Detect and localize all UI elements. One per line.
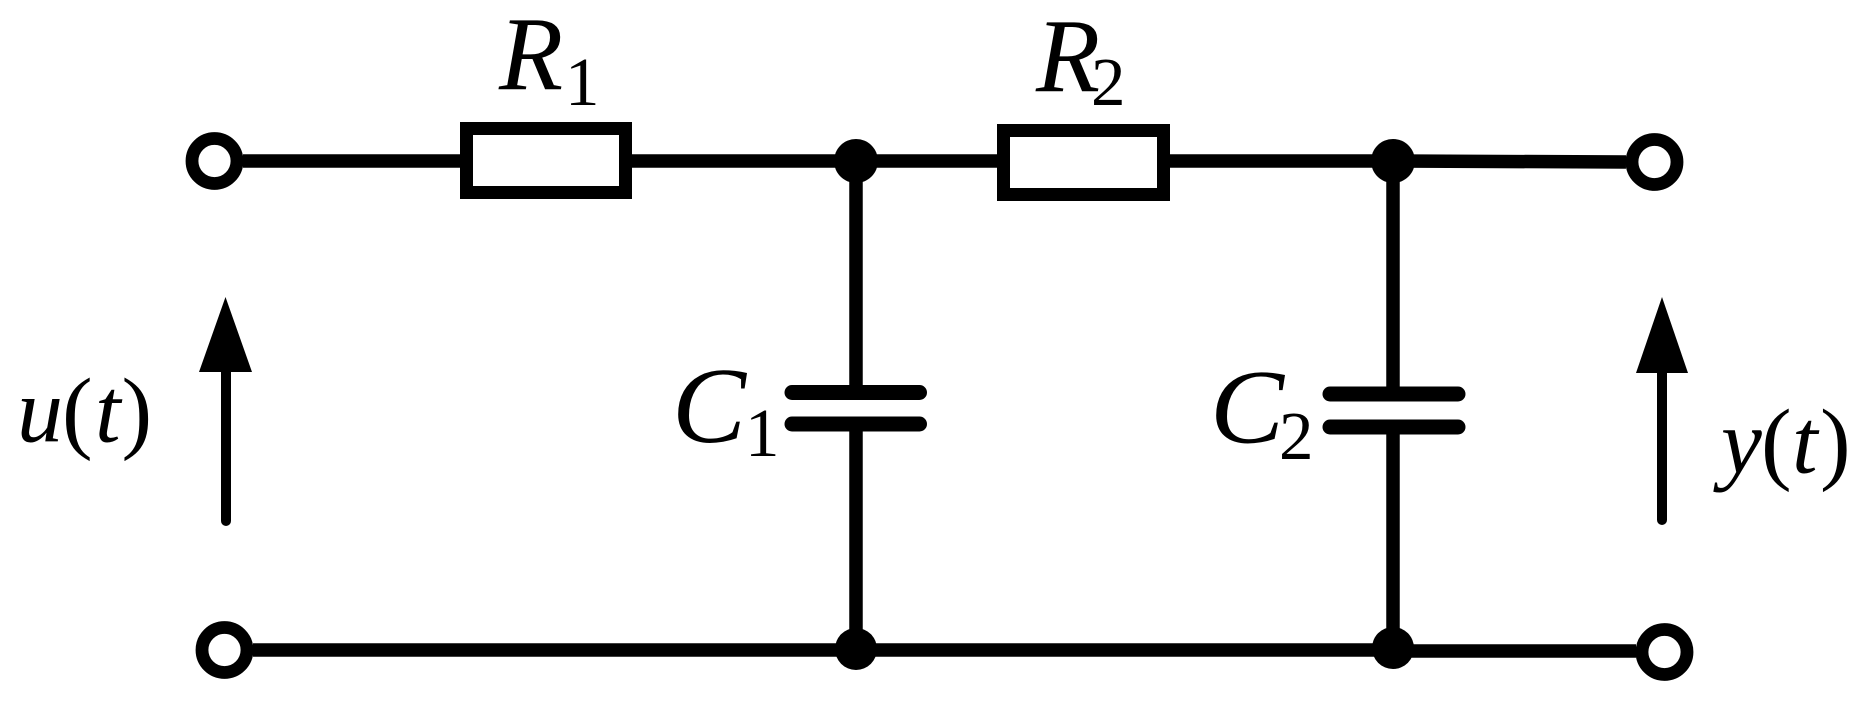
svg-text:(: ( [1761,391,1792,493]
arrow for u(t) (input voltage) [199,297,252,521]
svg-text:): ) [1820,391,1851,493]
svg-text:C: C [672,346,748,466]
svg-text:t: t [1792,391,1820,493]
arrow for y(t) (output voltage) [1636,297,1688,520]
label C1 [672,346,780,471]
label R1 [498,0,600,120]
wire: node A to R2 [856,154,999,168]
capacitor C1 plates [792,393,920,425]
svg-text:R: R [498,0,563,112]
bottom node B (C2 to ground rail) [1372,627,1414,669]
bottom-right terminal T4 [1642,630,1687,675]
wire: bottom rail (node A to node B) [856,643,1397,657]
label C2 [1210,349,1314,475]
label u(t) [17,360,152,462]
svg-text:1: 1 [565,44,600,120]
output terminal T2 (top-right) [1632,140,1677,185]
wire: input terminal to R1 [243,154,462,168]
node B (junction R2/C2/output) [1371,139,1415,183]
svg-text:y: y [1713,391,1762,493]
label R2 [1035,0,1126,120]
capacitor C2 plates [1330,394,1458,427]
wire: R2 to node B [1169,154,1397,168]
svg-text:2: 2 [1091,44,1126,120]
svg-text:t: t [95,360,123,462]
bottom-left terminal T3 [202,628,247,673]
resistor R2 [1004,131,1164,195]
wire: bottom rail (left terminal to bottom node A) [253,643,860,657]
svg-text:u: u [17,360,63,462]
svg-text:): ) [122,360,153,462]
svg-text:1: 1 [745,395,780,471]
svg-text:(: ( [62,360,93,462]
node A (junction R1/R2/C1) [834,139,878,183]
capacitor C1 top lead wire [849,161,863,385]
capacitor C1 bottom lead wire [849,432,863,651]
svg-text:C: C [1210,349,1286,467]
bottom node A (C1 to ground rail) [835,628,877,670]
wire: R1 to node A [632,154,860,168]
capacitor C2 top lead wire [1386,161,1400,387]
resistor R1 [467,129,626,193]
wire: node B to output terminal [1393,161,1626,162]
label y(t) [1713,391,1851,493]
svg-text:2: 2 [1279,398,1314,474]
wire: bottom rail (node B to right terminal) [1393,644,1636,658]
input terminal T1 (top-left) [192,139,237,184]
capacitor C2 bottom lead wire [1386,435,1400,651]
